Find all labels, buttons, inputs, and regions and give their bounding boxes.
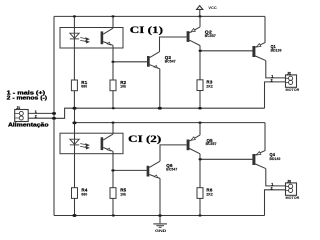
wire left bus xyxy=(53,16,55,215)
svg-text:2: 2 xyxy=(35,115,37,119)
wire J1 pin1 xyxy=(28,112,54,114)
svg-text:1: 1 xyxy=(35,110,37,114)
wire staircase from J1 minus to mid bus xyxy=(54,108,75,118)
wire top rail xyxy=(54,15,265,17)
node dot rail-LED1 xyxy=(73,15,76,17)
LED D1 inside CI (1) xyxy=(70,33,79,39)
wire GND stub xyxy=(159,216,161,224)
wire opto1 emitter to Q3 base xyxy=(113,61,147,63)
optocoupler U2 box CI (2) xyxy=(60,133,123,154)
wire motor2 pin2 riser xyxy=(265,190,286,216)
svg-text:MOTOR: MOTOR xyxy=(286,88,300,92)
wire Q5 emitter to lower rail xyxy=(199,123,201,136)
node dot Q3 emitter mid-bus xyxy=(158,107,162,110)
node dot R5 bottom bus xyxy=(112,214,115,216)
svg-text:BC547: BC547 xyxy=(165,59,176,63)
svg-text:BC547: BC547 xyxy=(166,167,177,171)
wire R2 top xyxy=(112,62,114,80)
optocoupler U1 box CI (1) xyxy=(60,28,123,49)
svg-text:CI (1): CI (1) xyxy=(130,25,163,35)
wire R3 bottom xyxy=(199,91,201,109)
node dot rail-VCC-Q2 xyxy=(198,15,201,17)
resistor R1 xyxy=(71,80,87,91)
svg-text:10k: 10k xyxy=(120,192,126,196)
wire opto1 collector xyxy=(112,16,114,28)
phototransistor of CI (1) xyxy=(101,28,113,45)
wire R3 top xyxy=(199,51,201,80)
wire R5 top xyxy=(112,170,114,187)
wire Q5 collector down xyxy=(199,154,201,160)
resistor R3 xyxy=(197,80,213,91)
VCC power symbol xyxy=(197,6,203,10)
wire bottom bus xyxy=(54,215,265,217)
node dot R3 mid-bus xyxy=(198,107,202,110)
transistor Q5 xyxy=(187,135,217,154)
wire Q1 collector from rail xyxy=(255,16,265,47)
svg-text:2K2: 2K2 xyxy=(206,84,213,88)
svg-text:2: 2 xyxy=(271,78,273,82)
node dot R2 mid-bus xyxy=(112,107,115,109)
wire Q2 emitter to rail xyxy=(199,16,201,27)
svg-text:CI (2): CI (2) xyxy=(128,134,161,144)
node dot opto1 emitter xyxy=(111,61,114,63)
wire VCC stub xyxy=(199,10,201,17)
resistor R6 xyxy=(197,188,213,199)
svg-text:BC557: BC557 xyxy=(205,34,216,38)
connector J1 xyxy=(15,106,29,122)
svg-text:2 - menos (-): 2 - menos (-) xyxy=(7,95,48,101)
svg-text:680: 680 xyxy=(81,85,87,89)
node dot Q5 collector xyxy=(199,158,202,160)
wire Q6 collector to Q5 base xyxy=(160,145,187,161)
wire LED1 anode column xyxy=(73,16,75,80)
node dot lower rail Q5 xyxy=(198,122,201,124)
LED D2 inside CI (2) xyxy=(70,139,79,145)
ground symbol xyxy=(153,224,167,227)
wire mid bus xyxy=(75,107,265,109)
wire Q5 collector to Q4 base xyxy=(200,158,252,160)
wire Q1 emitter to motor1 pin1 xyxy=(266,61,286,78)
svg-text:10k: 10k xyxy=(120,85,126,89)
svg-text:BC557: BC557 xyxy=(206,142,217,146)
wire R5 bottom xyxy=(112,198,114,215)
transistor Q2 xyxy=(187,27,216,46)
phototransistor of CI (2) xyxy=(101,134,113,151)
connector J2 motor 1 xyxy=(286,71,300,92)
node dot J1 pin1 on bus xyxy=(52,112,56,115)
wire opto2 emitter xyxy=(112,151,114,170)
node dot opto2 emitter xyxy=(111,169,114,171)
svg-text:BD140: BD140 xyxy=(270,157,281,161)
svg-text:2: 2 xyxy=(271,186,273,190)
node dot R4 bottom bus xyxy=(72,214,76,217)
resistor R2 xyxy=(110,80,127,91)
transistor Q4 xyxy=(252,152,280,169)
resistor R5 xyxy=(110,188,127,199)
LED D1 light arrows xyxy=(80,38,89,43)
svg-text:MOTOR: MOTOR xyxy=(286,196,300,200)
wire J1 pin2 xyxy=(28,117,54,119)
transistor Q1 xyxy=(252,44,281,61)
wire opto2 collector xyxy=(112,123,114,135)
node dot GND bottom bus xyxy=(158,214,162,217)
node dot R6 bottom bus xyxy=(198,214,201,216)
wire R2 bottom xyxy=(112,91,114,109)
wire Q3 emitter down xyxy=(159,69,161,108)
node dot rail-opto1-collector xyxy=(111,15,114,17)
wire opto2 emitter to Q6 base xyxy=(113,169,147,171)
connector J3 motor 2 xyxy=(286,179,300,199)
wire Q4 emitter to motor2 pin1 xyxy=(266,169,286,186)
svg-text:680: 680 xyxy=(81,192,87,196)
wire Q2 collector to Q1 base xyxy=(200,50,252,52)
wire Q2 collector down xyxy=(199,46,201,51)
resistor R4 xyxy=(72,188,88,199)
wire lower rail xyxy=(75,122,266,124)
node dot J1 pin2 on bus xyxy=(52,117,56,120)
transistor Q3 xyxy=(147,52,176,69)
wire Q4 collector from lower rail xyxy=(255,123,265,155)
svg-text:GND: GND xyxy=(155,229,167,233)
wire R4 bottom xyxy=(74,198,76,215)
wire LED2 anode column xyxy=(74,123,76,188)
svg-text:2K2: 2K2 xyxy=(206,192,213,196)
node dot lower rail opto2 xyxy=(112,122,115,124)
svg-text:VCC: VCC xyxy=(208,6,217,10)
wire R6 bottom xyxy=(199,198,201,215)
node dot mid-bus left xyxy=(72,107,76,110)
svg-text:Alimentação: Alimentação xyxy=(8,123,49,129)
wire Q6 emitter down xyxy=(159,178,161,215)
wire motor1 pin2 riser xyxy=(265,82,286,108)
svg-text:BD139: BD139 xyxy=(271,49,282,53)
wire Q3 collector to Q2 base xyxy=(160,37,187,52)
wire opto1 emitter xyxy=(112,45,114,61)
wire R1 bottom xyxy=(73,91,75,109)
LED D2 light arrows xyxy=(80,144,89,149)
transistor Q6 xyxy=(147,161,178,178)
node dot Q2 collector xyxy=(199,50,202,52)
wire R6 top xyxy=(199,159,201,187)
node dot lower rail left xyxy=(72,121,76,124)
wire jumper mid bus to lower rail xyxy=(74,108,76,123)
